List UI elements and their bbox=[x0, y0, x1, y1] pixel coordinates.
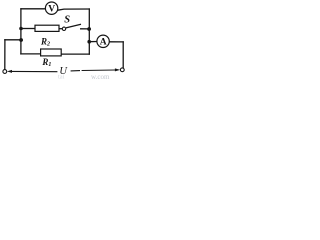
wire left tap to outer left bbox=[5, 39, 21, 41]
svg-text:V: V bbox=[48, 5, 55, 15]
wire ammeter branch left segment bbox=[89, 41, 97, 43]
wire top-right horizontal from voltmeter to right corner bbox=[58, 9, 90, 10]
wire outer left vertical down to terminal bbox=[4, 40, 6, 70]
switch S blade bbox=[66, 24, 81, 28]
svg-text:w.com: w.com bbox=[91, 73, 110, 79]
wire right vertical bus bbox=[88, 9, 90, 54]
wire top-left horizontal bbox=[21, 8, 45, 10]
wire left vertical bus bbox=[20, 9, 22, 54]
svg-text:S: S bbox=[64, 14, 70, 25]
resistor R1 box bbox=[41, 49, 62, 56]
switch S pivot circle bbox=[62, 27, 65, 30]
node junction left source tap bbox=[19, 38, 23, 42]
node junction left R2 tap bbox=[19, 27, 23, 31]
resistor R2 box bbox=[35, 25, 59, 31]
node junction right switch tap bbox=[87, 27, 91, 31]
ammeter U2 circle bbox=[97, 35, 109, 47]
wire switch contact to right bus bbox=[81, 28, 90, 30]
node junction right ammeter tap bbox=[87, 40, 91, 44]
wire ammeter to right corner bbox=[109, 41, 123, 43]
terminal right bbox=[120, 68, 124, 72]
svg-text:A: A bbox=[100, 38, 107, 48]
wire R1 branch left segment bbox=[21, 53, 41, 55]
terminal left bbox=[3, 70, 7, 74]
voltage dimension arrow right bbox=[71, 68, 121, 71]
voltmeter U1 circle bbox=[45, 2, 57, 14]
wire R1 branch right segment bbox=[61, 53, 89, 55]
wire outer right vertical down to terminal bbox=[122, 42, 124, 68]
svg-text:tai: tai bbox=[58, 74, 65, 79]
voltage dimension arrow left bbox=[7, 70, 58, 73]
wire R2 branch left segment bbox=[21, 28, 35, 30]
wire R2 to switch pivot bbox=[59, 28, 62, 30]
